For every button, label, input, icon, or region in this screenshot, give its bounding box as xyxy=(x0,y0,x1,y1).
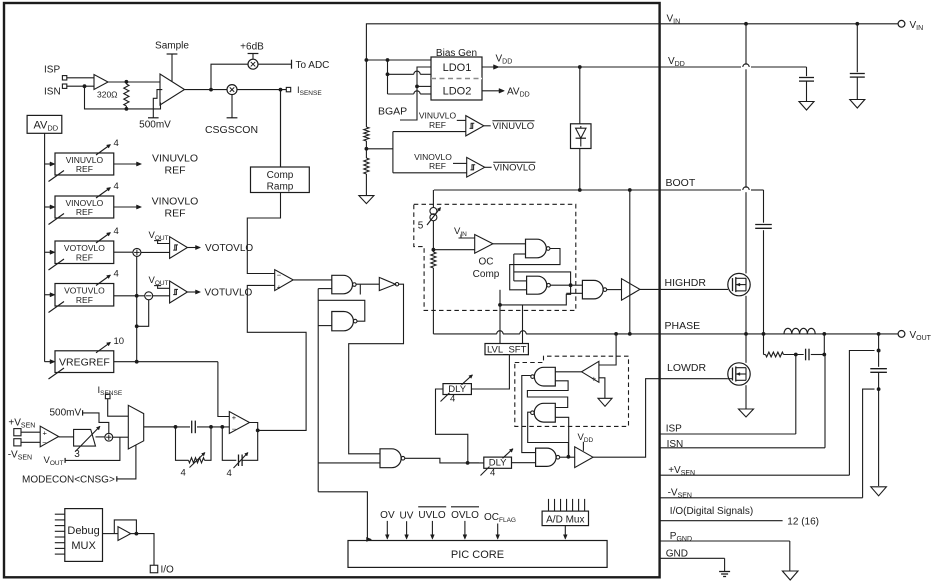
svg-text:REF: REF xyxy=(429,161,446,171)
svg-text:Ramp: Ramp xyxy=(267,182,294,193)
svg-text:10: 10 xyxy=(114,336,125,347)
svg-text:MUX: MUX xyxy=(71,540,96,552)
svg-text:4: 4 xyxy=(114,269,119,280)
svg-text:LVL_SFT: LVL_SFT xyxy=(487,344,527,355)
svg-text:4: 4 xyxy=(450,394,455,405)
svg-text:HIGHDR: HIGHDR xyxy=(665,277,707,289)
svg-text:−: − xyxy=(277,270,282,279)
svg-text:LDO2: LDO2 xyxy=(443,86,472,98)
svg-text:3: 3 xyxy=(74,449,80,460)
svg-text:A/D Mux: A/D Mux xyxy=(546,514,584,525)
svg-text:+: + xyxy=(43,428,48,437)
svg-text:−: − xyxy=(42,438,47,447)
svg-text:4: 4 xyxy=(114,226,119,237)
svg-text:OC: OC xyxy=(479,256,494,267)
svg-text:LDO1: LDO1 xyxy=(443,62,472,74)
svg-text:BGAP: BGAP xyxy=(378,106,407,118)
svg-text:+: + xyxy=(232,413,237,422)
svg-text:OVLO: OVLO xyxy=(451,510,479,521)
svg-text:+: + xyxy=(592,374,597,383)
svg-text:VREGREF: VREGREF xyxy=(59,356,110,368)
svg-text:BOOT: BOOT xyxy=(666,177,696,189)
svg-text:Comp: Comp xyxy=(267,170,294,181)
svg-text:4: 4 xyxy=(114,138,119,149)
svg-text:LOWDR: LOWDR xyxy=(667,362,707,374)
svg-text:Debug: Debug xyxy=(67,525,99,537)
svg-text:+6dB: +6dB xyxy=(240,42,264,53)
svg-text:I/O(Digital Signals): I/O(Digital Signals) xyxy=(670,506,753,517)
svg-text:REF: REF xyxy=(165,165,186,177)
svg-text:To ADC: To ADC xyxy=(296,60,330,71)
svg-text:UVLO: UVLO xyxy=(418,510,445,521)
svg-text:PIC CORE: PIC CORE xyxy=(451,549,504,561)
svg-text:REF: REF xyxy=(76,164,93,174)
svg-text:VOTUVLO: VOTUVLO xyxy=(205,288,253,299)
svg-text:REF: REF xyxy=(76,207,93,217)
svg-text:UV: UV xyxy=(400,510,414,521)
svg-text:500mV: 500mV xyxy=(50,408,82,419)
svg-text:4: 4 xyxy=(114,181,119,192)
svg-text:CSGSCON: CSGSCON xyxy=(205,124,258,136)
svg-text:VINOVLO: VINOVLO xyxy=(493,163,535,174)
svg-text:4: 4 xyxy=(227,468,232,479)
svg-text:REF: REF xyxy=(165,208,186,220)
svg-text:I/O: I/O xyxy=(161,565,175,576)
svg-text:ISP: ISP xyxy=(666,424,682,435)
svg-text:VOTOVLO: VOTOVLO xyxy=(205,243,253,254)
svg-text:VINOVLO: VINOVLO xyxy=(152,196,199,208)
svg-text:12 (16): 12 (16) xyxy=(787,516,819,527)
svg-text:ISP: ISP xyxy=(44,65,60,76)
svg-text:Bias Gen: Bias Gen xyxy=(436,48,477,59)
svg-text:REF: REF xyxy=(76,252,93,262)
svg-text:4: 4 xyxy=(490,468,495,479)
svg-text:Sample: Sample xyxy=(155,41,189,52)
svg-text:−: − xyxy=(232,424,237,433)
svg-text:ISN: ISN xyxy=(44,87,61,98)
svg-text:4: 4 xyxy=(181,468,186,479)
svg-text:500mV: 500mV xyxy=(139,120,171,131)
svg-text:+: + xyxy=(277,282,282,291)
svg-text:VINUVLO: VINUVLO xyxy=(152,153,198,165)
svg-text:5: 5 xyxy=(418,221,424,232)
svg-text:PHASE: PHASE xyxy=(665,320,701,332)
svg-text:REF: REF xyxy=(76,295,93,305)
svg-text:MODECON<CNSG>: MODECON<CNSG> xyxy=(22,474,115,485)
svg-text:VINUVLO: VINUVLO xyxy=(492,121,534,132)
svg-text:320Ω: 320Ω xyxy=(97,90,118,100)
svg-text:Comp: Comp xyxy=(473,269,500,280)
svg-text:OV: OV xyxy=(380,510,395,521)
svg-text:REF: REF xyxy=(429,120,446,130)
